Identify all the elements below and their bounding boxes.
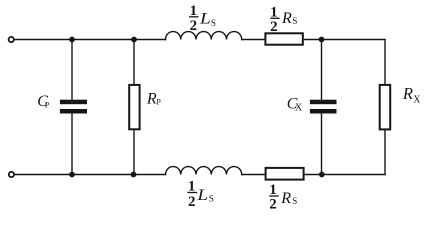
svg-text:R: R xyxy=(146,91,157,108)
svg-text:2: 2 xyxy=(190,18,198,34)
node top rail / RP xyxy=(131,37,137,43)
svg-text:X: X xyxy=(413,95,421,106)
capacitor CP bottom plate xyxy=(60,109,87,114)
svg-text:S: S xyxy=(209,193,214,203)
capacitor CP top plate xyxy=(60,100,87,105)
svg-text:R: R xyxy=(280,190,291,207)
wire top rail left xyxy=(15,39,166,41)
label 1/2 LS (top) xyxy=(189,3,216,34)
wire bottom between LS and RS xyxy=(242,174,266,176)
wire CX branch lower xyxy=(321,113,323,174)
label CX xyxy=(287,96,303,114)
svg-text:L: L xyxy=(199,11,211,28)
wire bottom rail left xyxy=(15,174,166,176)
svg-text:2: 2 xyxy=(188,194,196,210)
wire CX branch upper xyxy=(321,40,323,100)
wire bottom rail right xyxy=(304,174,385,176)
label RP xyxy=(146,91,162,108)
wire CP branch lower xyxy=(71,113,73,174)
wire right vertical lower xyxy=(384,129,386,174)
resistor 1/2 RS (top) xyxy=(265,33,302,44)
capacitor CX bottom plate xyxy=(310,109,337,114)
wire RP branch upper xyxy=(133,40,135,85)
label RX xyxy=(402,84,421,105)
wire right vertical upper xyxy=(384,40,386,85)
resistor RX xyxy=(380,85,391,129)
inductor 1/2 LS (top) xyxy=(166,32,242,40)
capacitor CX top plate xyxy=(310,100,337,105)
node top rail / CX xyxy=(319,37,325,43)
wire top between LS and RS xyxy=(242,39,266,41)
node bottom rail / RP xyxy=(131,172,137,178)
svg-text:R: R xyxy=(281,10,292,27)
inductor 1/2 LS (bottom) xyxy=(166,167,242,175)
svg-text:S: S xyxy=(292,16,297,26)
label 1/2 RS (bottom) xyxy=(269,182,297,213)
wire CP branch upper xyxy=(71,40,73,100)
resistor 1/2 RS (bottom) xyxy=(266,168,304,180)
node bottom rail / CP xyxy=(69,172,75,178)
wire RP branch lower xyxy=(133,129,135,174)
label 1/2 RS (top) xyxy=(270,4,297,35)
svg-text:P: P xyxy=(156,98,161,107)
svg-text:L: L xyxy=(196,187,208,204)
wire top rail right xyxy=(303,39,385,41)
svg-text:P: P xyxy=(45,101,50,110)
svg-text:R: R xyxy=(402,84,413,103)
label 1/2 LS (bottom) xyxy=(187,178,213,210)
node bottom rail / CX xyxy=(319,172,325,178)
svg-text:2: 2 xyxy=(270,19,278,35)
terminal top-left xyxy=(9,37,14,42)
svg-text:2: 2 xyxy=(269,197,277,213)
resistor RP xyxy=(129,85,139,129)
svg-text:X: X xyxy=(295,103,303,114)
terminal bottom-left xyxy=(9,172,14,177)
svg-text:S: S xyxy=(292,196,297,206)
svg-text:S: S xyxy=(211,18,216,28)
node top rail / CP xyxy=(69,37,75,43)
label CP xyxy=(37,93,50,110)
